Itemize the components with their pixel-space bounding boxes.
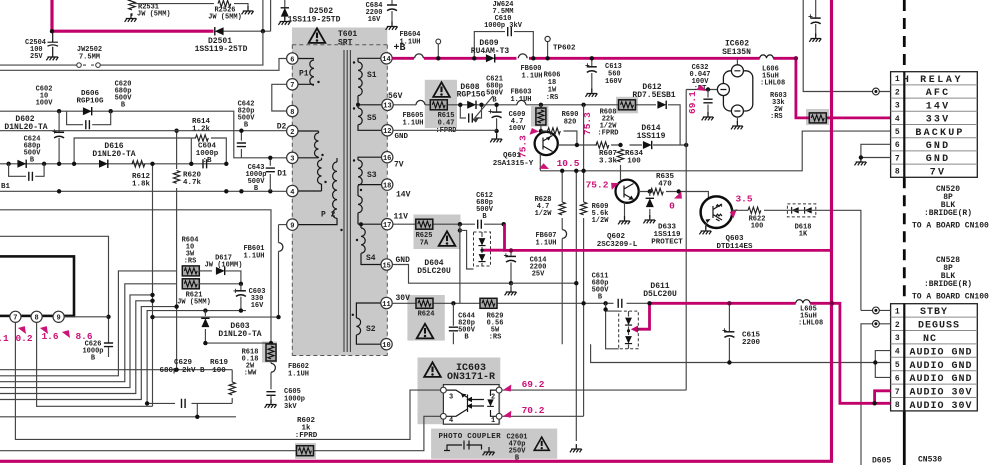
winding S5 [357,105,359,108]
svg-text:12: 12 [383,128,391,136]
svg-text::FPRD: :FPRD [597,130,618,138]
svg-text:GND: GND [396,256,411,265]
svg-text:3: 3 [895,102,900,111]
svg-text:+: + [808,13,813,22]
pin 17 [382,219,393,230]
svg-text:CN530: CN530 [918,456,942,465]
diode D618 (dual, dashed box) [787,204,815,217]
svg-text:D5LC20U: D5LC20U [643,290,677,299]
bridge dashed bus (thick black, top) [903,0,906,72]
transistor Q602 [616,180,639,203]
pin 4 [287,185,298,196]
wire IC603 pin2 (69.2 net) [502,389,686,391]
svg-text:11: 11 [382,301,390,309]
svg-text:0: 0 [669,201,675,212]
svg-text:RGP10G: RGP10G [76,98,104,106]
svg-text:7: 7 [290,82,294,90]
svg-text:RU4AM-T3: RU4AM-T3 [471,47,510,56]
wire +B magenta rail [392,57,796,60]
svg-text:AFC: AFC [926,88,951,99]
svg-text:PHOTO COUPLER: PHOTO COUPLER [439,433,502,441]
svg-text:1.1UH: 1.1UH [535,240,556,248]
wire IC603 pin1 (70.2 net) [502,415,584,417]
resistor R634 vertical [617,149,623,162]
svg-text:14: 14 [382,56,390,64]
winding S1 [358,58,382,105]
svg-text:9: 9 [290,222,294,230]
capacitor inside note box [444,441,482,451]
resistor R622 [748,207,761,213]
wire AUDIO GND bracket [591,344,891,377]
pin 11 [381,297,392,308]
zener D612 [657,101,666,109]
svg-text:10: 10 [382,342,390,350]
wire bus2 y=70.3 to pin6 [0,59,286,71]
light arrows [472,400,484,407]
wire y=417 line [0,416,236,418]
svg-text:100: 100 [627,158,641,166]
wire STBY [861,309,891,311]
pin 18 [382,179,393,190]
wire FB601 line (y=317.1) [153,316,279,318]
svg-text:8: 8 [895,168,900,177]
pin 8 of IC601 [31,311,42,322]
shaded box around R608 [616,97,638,114]
resistor R602 (boxed) [297,446,314,456]
svg-text::FPRD: :FPRD [295,432,318,440]
svg-text:Q602: Q602 [607,233,626,241]
shaded box around R625 warning [414,215,461,250]
wire pin9 to C626 riser [64,316,108,318]
capacitor C626 [104,343,113,347]
ferrite bead FB605 [416,100,425,104]
wire L2 to R604 [0,271,176,376]
resistor R660 (boxed) on 33V feed [809,113,826,123]
diode D616 [99,160,108,168]
transistor Q601 [535,132,558,155]
svg-text:1.6: 1.6 [41,331,58,342]
svg-text:1.1UH: 1.1UH [288,371,309,379]
LED side [491,390,500,416]
diode D603 vertical [204,311,206,344]
svg-text:1.2k: 1.2k [192,126,211,134]
svg-text:2: 2 [491,394,495,402]
svg-text:GND: GND [926,154,951,165]
node pin17 branch [458,222,462,226]
diode D604 (dual, dashed box) [474,232,491,266]
pin 7 of IC601 [10,311,21,322]
wire L4 [0,295,153,388]
svg-text:8: 8 [34,315,38,323]
node C611 left [603,301,607,305]
svg-text:820: 820 [564,119,577,127]
svg-text:2SC3209-L: 2SC3209-L [597,241,638,249]
capacitor C620 loop under D606 [67,111,111,125]
wire branch to D604 [460,230,474,269]
svg-text:1/2W: 1/2W [535,210,553,218]
capacitor C621 loop with arrow [460,105,481,118]
shaded box IC603 [418,358,501,425]
svg-text:680p 2kV B: 680p 2kV B [159,367,205,375]
svg-text:9: 9 [56,315,60,323]
wire Q601 collector line to D614 [558,144,686,146]
wire bus1 y=65 with jumper JW2502 [0,31,263,65]
coil L605 (on AUDIO 30V rail) [796,299,810,308]
svg-text:JW (5MM): JW (5MM) [208,14,242,22]
svg-text:S1: S1 [367,71,377,80]
svg-text:.1: .1 [0,333,9,344]
magenta arrow 70.2 [502,411,513,420]
svg-text:1.1UH: 1.1UH [243,253,264,261]
wire 30V line [392,302,649,304]
svg-text::RS: :RS [489,334,502,342]
node R609 bottom [581,301,585,305]
svg-text:2SA1315-Y: 2SA1315-Y [493,160,534,168]
svg-text::RS: :RS [770,113,783,121]
svg-text:1000p 3kV: 1000p 3kV [484,22,523,30]
svg-text:15: 15 [382,262,390,270]
ferrite break at pin14 [415,54,424,58]
svg-text:25V: 25V [30,53,43,61]
svg-text:JW (10MM): JW (10MM) [205,262,243,270]
shaded box around R618 [262,342,277,363]
svg-text:C629: C629 [174,359,193,367]
svg-text:69.1: 69.1 [687,91,698,114]
diode D2501 [215,27,224,35]
wire 56V line [393,105,680,145]
svg-text:8.6: 8.6 [75,331,92,342]
wire L3 to R621 [0,284,176,382]
wire pin8 drop to riser x=152.5 [37,322,153,406]
svg-text:SRT: SRT [338,39,353,48]
capacitor C611 [618,299,622,308]
pin 16 [382,152,393,163]
capacitor C643 [269,158,271,192]
capacitor C644 [452,303,454,344]
wire Q602 collector line to Q603 [639,192,709,200]
svg-text:6: 6 [895,141,900,150]
pin 9 of IC601 [53,311,64,322]
svg-text:2200: 2200 [742,339,761,347]
svg-text:70.2: 70.2 [522,405,545,416]
svg-text::BRIDGE(R): :BRIDGE(R) [924,280,972,289]
svg-text:3: 3 [290,156,294,164]
magenta arrow pin7 [18,324,29,336]
winding S3 (16/18/17 taps) [358,157,382,224]
capacitor C615 electrolytic [728,303,730,362]
svg-text:RD7.5ESB1: RD7.5ESB1 [632,91,675,100]
test pin above +B [436,39,441,44]
node C632 [706,87,710,91]
node C612/magenta [502,222,506,226]
diode D633 vertical to ground [649,192,651,219]
pin 9 [287,219,298,230]
node [42,162,46,166]
phototransistor side [447,390,468,416]
capacitor C614 electrolytic [510,250,512,283]
svg-text:1.1UH: 1.1UH [399,39,420,47]
wire D2501 cathode to risers [224,0,271,31]
shaded box photo coupler note [431,429,557,459]
svg-text:5: 5 [895,128,900,137]
wire C629 branch [147,403,232,416]
svg-text:SE135N: SE135N [722,48,751,57]
svg-text:16V: 16V [368,16,381,24]
ground below R2531 [125,14,137,22]
svg-text:S4: S4 [366,254,376,263]
warning triangle R625 [439,231,456,246]
svg-text:1SS119-25TD: 1SS119-25TD [195,45,248,54]
IC603 body [443,385,499,425]
svg-text:1K: 1K [799,231,808,239]
capacitor bypass loop under D602 diode [9,164,45,177]
wire Q603 to R622/D618 [732,210,861,310]
transistor Q603 (digital) [701,196,733,228]
svg-text::FPRD: :FPRD [435,127,456,135]
svg-text:1: 1 [895,75,900,84]
svg-text:1.1UH: 1.1UH [402,120,423,128]
svg-text:S3: S3 [367,171,377,180]
ferrite bead FB600 [518,54,527,58]
capacitor C603 electrolytic [240,284,242,311]
winding P1 [298,59,314,85]
magenta bottom border [0,460,833,463]
wire 7V / 10.5 line to BACKUP [540,131,890,171]
resistor R621 (boxed) [182,279,199,289]
resistor R618 (boxed, vertical) [266,344,276,361]
svg-text:1: 1 [895,307,900,316]
svg-text:1SS119: 1SS119 [637,132,666,141]
warning triangle C2601 [534,437,549,450]
bridge dashed bus (between tables) [903,177,906,303]
winding P2 [298,218,337,225]
magenta AUDIO 30V feed [650,303,891,403]
magenta arrow 69.1 [696,84,707,94]
wire AFC [803,0,890,92]
svg-text:7: 7 [895,388,900,397]
svg-text:7: 7 [13,315,17,323]
pin 14 [381,53,392,64]
pin 12 [382,125,393,136]
magenta rail left (x=831.5 full height) [830,0,833,461]
pin 10 [381,339,392,350]
ground below D2502 [278,17,290,25]
svg-text:69.2: 69.2 [522,379,545,390]
svg-text:16V: 16V [251,302,264,310]
pin 8 [287,105,298,116]
svg-text:4: 4 [290,189,294,197]
capacitor C624 (electrolytic on x=59.1) [58,111,60,164]
wire y=236.3 line down to pin9 junction and C626 [0,236,109,342]
ferrite bead FB607 [562,230,566,239]
svg-text:3kV: 3kV [284,403,297,411]
magenta arrow pin9 [62,328,73,340]
svg-text:TO A BOARD CN100: TO A BOARD CN100 [912,222,989,231]
resistor R624 (boxed) [416,298,433,308]
svg-text:7A: 7A [420,240,429,248]
diode D617 [199,270,212,272]
winding primary 2-3-4 [298,131,319,191]
diode D606 [83,107,92,115]
svg-text:1.1UH: 1.1UH [521,73,542,81]
riser x=576.3 (C614 return) [575,171,577,441]
wire R2526 to ground [234,4,248,9]
svg-text:33V: 33V [926,115,951,126]
wire branch down to 30V line [459,224,461,303]
wire pin7 drop to IC603 pin3 line [15,322,443,439]
svg-text:D605: D605 [872,457,891,465]
svg-text:R624: R624 [418,311,435,319]
ferrite bead FB602 [270,361,272,389]
pin 2 [287,125,298,136]
svg-text:AUDIO GND: AUDIO GND [909,347,972,358]
resistor R604 (boxed) [182,266,199,276]
wire riser x=74.1 to R614 loop [74,138,191,164]
magenta 33V feed [796,58,891,118]
capacitor C629 [182,399,186,408]
svg-text:ON3171-R: ON3171-R [447,372,495,383]
wire top bus y=111.2 to pin3 riser [0,111,286,158]
svg-text:JW (5MM): JW (5MM) [137,11,171,19]
test point STBY [873,307,880,314]
svg-text:160V: 160V [605,78,623,86]
wire D617 to C603 node [225,271,241,284]
svg-text:RGP15G: RGP15G [457,91,486,100]
electrolytic cap at top right [815,0,817,37]
resistor R629 (boxed) [480,298,497,308]
wire 11V line [393,223,504,225]
shaded box around R615/D608 warning [425,80,457,128]
pin 7 [287,79,298,90]
svg-text:1/2W: 1/2W [592,217,610,225]
magenta arrow into D611 [638,303,650,329]
svg-text:AUDIO GND: AUDIO GND [909,361,972,372]
svg-text:AUDIO 30V: AUDIO 30V [909,401,972,412]
node [109,109,113,113]
resistor R612 [132,161,145,167]
svg-text::RS: :RS [184,258,197,266]
svg-text::LHL08: :LHL08 [798,320,823,328]
capacitor C610 jumper loop [474,32,533,59]
svg-text:TO A BOARD CN100: TO A BOARD CN100 [912,293,989,302]
svg-text:25V: 25V [532,271,545,279]
shaded box around R690 [531,106,549,127]
diode D614 [643,141,652,149]
svg-text:S5: S5 [367,114,377,123]
connector CN528 table [891,304,978,412]
IC603 pin circles [441,387,447,393]
ground after R2526 [242,6,254,14]
magenta arrow Q602 [609,180,620,190]
resistor R607 [596,142,609,148]
svg-text:8: 8 [895,401,900,410]
svg-text:1.1UH: 1.1UH [510,96,531,104]
svg-text:56V: 56V [388,92,403,101]
transformer label D2502 header / T601 [309,28,326,43]
resistor R628 vertical [561,171,563,344]
svg-text::BRIDGE(R): :BRIDGE(R) [924,209,972,218]
wire pin9 left stub to FB601 [279,224,287,226]
svg-text:3.5: 3.5 [735,194,752,205]
svg-text:2: 2 [895,88,900,97]
svg-text:D5LC20U: D5LC20U [417,267,451,276]
wire Q601 emitter down to 7V line [539,154,541,171]
svg-text:GND: GND [395,133,409,141]
node R609 top on 56V line [581,103,585,107]
svg-text:4.7k: 4.7k [183,179,202,187]
pin 15 [381,259,392,270]
svg-text:75.3: 75.3 [518,135,529,158]
winding S2 [356,303,381,344]
wire R2531 top to R2526 [132,3,214,5]
svg-text:13: 13 [383,103,391,111]
svg-text:75.2: 75.2 [586,180,609,191]
ground at CN520 [855,157,867,165]
svg-text:7.5MM: 7.5MM [79,54,100,62]
resistor R620 vertical [176,131,178,370]
svg-text:+: + [233,288,238,297]
junction at C2504 top [50,29,54,33]
svg-text:1.8k: 1.8k [132,181,151,189]
wire R602 line (IC603 pin4 net) [0,416,443,450]
resistor R615 (boxed) [430,100,447,110]
wire R621 to node [199,283,241,285]
IC601 outline [0,256,74,316]
svg-text:14V: 14V [396,191,411,200]
svg-text:+: + [585,62,590,71]
wire y=209.8 line to R618 riser [0,210,271,343]
svg-text:NC: NC [923,334,937,345]
magenta arrow 69.2 [502,384,513,393]
svg-text:100V: 100V [509,125,527,133]
node R634 top [618,143,622,147]
resistor R2526 [218,0,231,6]
resistor R625 (boxed) [416,219,433,229]
resistor R619 vertical [231,370,233,404]
svg-text::RS: :RS [546,94,559,102]
svg-text:4: 4 [449,417,453,425]
svg-text:Q603: Q603 [725,235,744,243]
node [57,162,61,166]
node [6,162,10,166]
bridge bus solid below CN528 [903,411,906,465]
svg-text:5: 5 [895,361,900,370]
capacitor C642 riser [240,131,242,158]
svg-text:470: 470 [658,181,672,189]
coil L606 [760,55,774,58]
svg-text:D1: D1 [277,170,287,179]
magenta arrow 10.5 [539,162,550,172]
transformer dashed border [292,45,387,356]
wire pin12 GND line [393,129,497,131]
node D2501/riser junction [261,29,265,33]
transformer T601 body shading [292,28,387,356]
ferrite bead FB603 [517,100,526,104]
warning triangle R624 [417,324,434,339]
wire mid line y=163.8 [0,163,226,165]
svg-text:4: 4 [895,348,900,357]
svg-text:BACKUP: BACKUP [915,128,964,139]
svg-text:4: 4 [895,115,900,124]
svg-text:0.2: 0.2 [15,333,32,344]
wire C632 net (IC602 pin to D614 node) [686,90,717,391]
svg-text:D1NL20-TA: D1NL20-TA [218,330,261,339]
diode D609 [486,54,495,62]
pin 13 [382,99,393,110]
svg-text:+: + [52,128,57,137]
warning triangle (D608 area) [433,82,450,97]
capacitor C609 electrolytic [496,105,498,137]
